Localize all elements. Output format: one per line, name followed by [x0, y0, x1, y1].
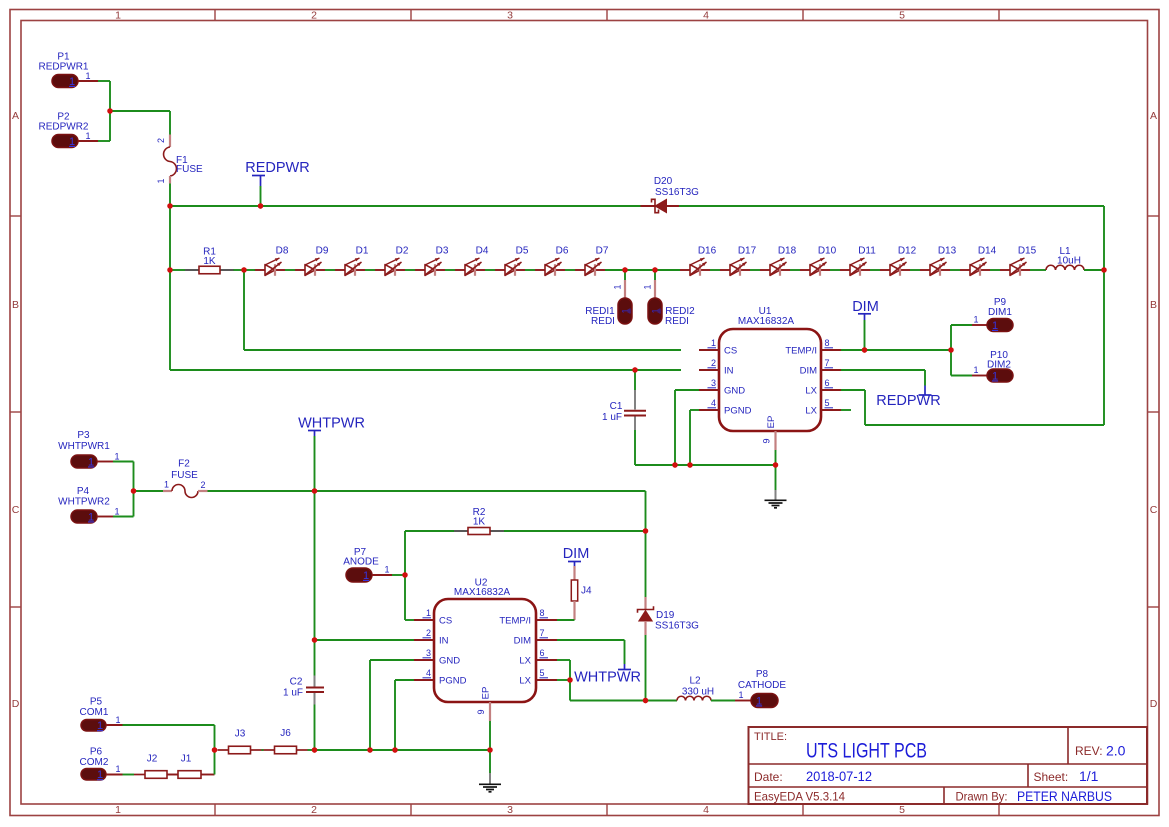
LED D2	[375, 246, 409, 276]
svg-text:1 uF: 1 uF	[602, 412, 622, 423]
svg-text:TITLE:: TITLE:	[754, 731, 787, 743]
svg-text:5: 5	[899, 9, 905, 21]
LED D5	[495, 246, 529, 276]
wire bottom bus	[315, 749, 491, 751]
U2 pin 8 TEMP/I	[499, 608, 557, 627]
wire P7 to node	[392, 574, 405, 576]
svg-text:1K: 1K	[203, 256, 216, 267]
net label REDPWR top	[245, 160, 309, 206]
svg-text:PGND: PGND	[439, 676, 467, 687]
svg-text:1: 1	[973, 315, 978, 325]
svg-text:ANODE: ANODE	[343, 557, 379, 568]
junction PGND riser U2	[392, 747, 397, 752]
svg-text:UTS LIGHT PCB: UTS LIGHT PCB	[806, 740, 927, 763]
inductor L1	[1030, 246, 1104, 270]
wire U2 LX pin5	[557, 679, 570, 681]
svg-text:P6: P6	[90, 747, 103, 758]
wire to D10	[790, 269, 800, 271]
svg-text:Date:: Date:	[754, 770, 783, 784]
U1 pin 3 GND	[699, 378, 745, 397]
LED D6	[535, 246, 569, 276]
resistor R2	[405, 530, 454, 532]
ground symbol U1	[765, 490, 787, 508]
svg-text:5: 5	[540, 668, 545, 678]
pin 1 of P4	[97, 516, 113, 518]
svg-text:1: 1	[97, 769, 103, 781]
svg-text:P8: P8	[756, 669, 769, 680]
svg-text:D8: D8	[276, 246, 289, 257]
connector P10	[973, 350, 1013, 382]
svg-text:3: 3	[507, 804, 513, 816]
svg-text:FUSE: FUSE	[176, 164, 203, 175]
svg-text:1: 1	[88, 511, 94, 523]
wire U1 CS	[243, 270, 245, 350]
junction L1-right	[1101, 267, 1106, 272]
wire to D17	[710, 269, 720, 271]
LED D10	[800, 246, 837, 276]
svg-text:REDPWR2: REDPWR2	[38, 122, 88, 133]
svg-text:P5: P5	[90, 697, 103, 708]
svg-text:4: 4	[426, 668, 431, 678]
junction LX node	[567, 677, 572, 682]
svg-text:9: 9	[762, 438, 772, 443]
svg-text:1: 1	[85, 131, 90, 141]
svg-text:1: 1	[756, 695, 762, 707]
svg-text:6: 6	[825, 378, 830, 388]
svg-text:D5: D5	[516, 246, 529, 257]
svg-text:1: 1	[115, 9, 121, 21]
pin 1 of P5	[106, 724, 123, 726]
svg-text:COM2: COM2	[80, 757, 109, 768]
pin 1 of P6	[106, 774, 123, 776]
svg-text:Drawn By:: Drawn By:	[956, 790, 1008, 804]
net label REDPWR right	[876, 386, 940, 410]
svg-text:TEMP/I: TEMP/I	[785, 346, 817, 357]
svg-text:1: 1	[114, 452, 119, 462]
svg-text:J2: J2	[147, 754, 158, 765]
wire to D8	[244, 269, 255, 271]
svg-text:LX: LX	[805, 406, 817, 417]
svg-text:DIM1: DIM1	[988, 307, 1012, 318]
wire U2 DIM pin to WHTPWR label	[557, 639, 625, 641]
junction GND riser	[672, 462, 677, 467]
U1 pin 2 IN	[699, 358, 734, 377]
wire to D16	[655, 269, 680, 271]
svg-text:DIM: DIM	[563, 546, 590, 562]
wire U2 GND riser	[370, 659, 414, 661]
svg-text:2018-07-12: 2018-07-12	[806, 768, 872, 784]
svg-text:EP: EP	[481, 687, 492, 700]
svg-text:IN: IN	[724, 366, 734, 377]
wire J6 to C2 node	[308, 749, 315, 751]
U2 pin 5 LX	[519, 668, 557, 687]
wire J1 to riser	[201, 774, 215, 776]
svg-text:REDI: REDI	[591, 316, 615, 327]
svg-text:2: 2	[311, 9, 317, 21]
pin 1 of P7	[372, 574, 392, 576]
junction R1 branch	[167, 267, 172, 272]
svg-text:J3: J3	[235, 729, 246, 740]
svg-text:2: 2	[156, 138, 166, 143]
net label DIM mid	[563, 546, 590, 566]
svg-text:D14: D14	[978, 246, 997, 257]
wire U1 EP down	[775, 450, 777, 490]
svg-text:MAX16832A: MAX16832A	[454, 587, 510, 598]
svg-text:REDPWR1: REDPWR1	[38, 62, 88, 73]
svg-text:1 uF: 1 uF	[283, 688, 303, 699]
jumper J4	[571, 566, 592, 620]
wire to D11	[830, 269, 840, 271]
LED D3	[415, 246, 449, 276]
svg-text:D: D	[12, 698, 20, 710]
svg-text:B: B	[1150, 299, 1157, 311]
svg-text:REDPWR: REDPWR	[245, 160, 309, 176]
wire J2 to J1	[167, 774, 178, 776]
junction R2-D19 node	[643, 528, 648, 533]
svg-text:D2: D2	[396, 246, 409, 257]
wire to D2	[365, 269, 375, 271]
svg-text:J6: J6	[280, 728, 291, 739]
svg-text:2: 2	[426, 628, 431, 638]
wire U2 PGND riser	[395, 679, 414, 681]
svg-text:REDI: REDI	[665, 316, 689, 327]
U2 pin 4 PGND	[414, 668, 467, 687]
net label DIM top	[852, 299, 879, 350]
wire right edge down	[1103, 270, 1105, 425]
svg-text:WHTPWR: WHTPWR	[298, 416, 365, 432]
junction D19-L2 node	[643, 698, 648, 703]
connector P6	[80, 747, 121, 782]
junction GND riser U2	[367, 747, 372, 752]
svg-text:1: 1	[363, 570, 369, 582]
LED D4	[455, 246, 489, 276]
op-amp U2 MAX16832A	[434, 578, 536, 703]
junction IN-U2 node	[312, 637, 317, 642]
U1 pin 9 EP	[762, 416, 778, 450]
svg-text:F2: F2	[178, 459, 190, 470]
junction P7 node	[402, 572, 407, 577]
wire U2 IN	[315, 639, 415, 641]
svg-text:J4: J4	[581, 586, 592, 597]
junction REDI2	[652, 267, 657, 272]
svg-text:GND: GND	[724, 386, 745, 397]
LED D14	[960, 246, 997, 276]
wire node to F1	[110, 110, 170, 112]
svg-text:1: 1	[156, 178, 166, 183]
capacitor C1	[602, 370, 646, 465]
svg-text:2.0: 2.0	[1106, 743, 1126, 759]
svg-text:330 uH: 330 uH	[682, 687, 714, 698]
svg-text:2: 2	[711, 358, 716, 368]
svg-text:C1: C1	[610, 401, 623, 412]
svg-text:P4: P4	[77, 486, 90, 497]
svg-text:GND: GND	[439, 656, 460, 667]
wire to P10	[950, 350, 952, 376]
LED D17	[720, 246, 757, 276]
svg-text:LX: LX	[519, 676, 531, 687]
wire LX to L2 bus	[570, 700, 646, 702]
svg-text:D19: D19	[656, 610, 675, 621]
LED D12	[880, 246, 917, 276]
wire to D14	[950, 269, 960, 271]
svg-text:FUSE: FUSE	[171, 470, 198, 481]
svg-text:PETER NARBUS: PETER NARBUS	[1017, 788, 1112, 804]
U1 pin 1 CS	[699, 338, 737, 357]
svg-text:1: 1	[164, 480, 169, 490]
svg-text:EasyEDA V5.3.14: EasyEDA V5.3.14	[754, 790, 845, 804]
wire to D12	[870, 269, 880, 271]
svg-text:D: D	[1150, 698, 1158, 710]
svg-text:P3: P3	[77, 430, 90, 441]
wire fuse node down to IN wire	[169, 206, 171, 370]
wire whtpwr bus corner down to R2 junction	[645, 491, 647, 531]
svg-text:A: A	[12, 110, 19, 122]
junction C2 riser	[312, 747, 317, 752]
svg-text:1: 1	[69, 136, 75, 148]
wire to D4	[445, 269, 455, 271]
svg-text:4: 4	[703, 804, 709, 816]
connector REDI2	[643, 270, 696, 327]
svg-text:1: 1	[992, 320, 998, 332]
svg-text:1: 1	[114, 507, 119, 517]
svg-text:1/1: 1/1	[1079, 768, 1099, 784]
U2 pin 9 EP	[476, 687, 492, 721]
svg-text:IN: IN	[439, 636, 449, 647]
svg-text:1: 1	[992, 370, 998, 382]
svg-text:D11: D11	[858, 246, 876, 257]
junction EP riser U2	[487, 747, 492, 752]
svg-text:C: C	[12, 504, 20, 516]
wire to P9	[950, 325, 952, 350]
wire J3 to J6	[262, 749, 264, 751]
svg-text:9: 9	[476, 709, 486, 714]
diode D19	[638, 531, 700, 701]
wire P4 to node	[113, 516, 134, 518]
svg-text:DIM2: DIM2	[987, 360, 1011, 371]
junction P9/P10 branch	[948, 347, 953, 352]
svg-text:L2: L2	[689, 676, 701, 687]
net label WHTPWR top	[298, 416, 365, 492]
wire U1 DIM pin to REDPWR label	[841, 369, 925, 371]
pin 1 of P2	[78, 140, 98, 142]
junction F1-bus	[167, 203, 172, 208]
wire R2 left down to CS U2	[404, 531, 406, 620]
svg-text:3: 3	[507, 9, 513, 21]
svg-text:D1: D1	[356, 246, 369, 257]
svg-text:1: 1	[651, 308, 661, 313]
wire P1 to node	[98, 80, 110, 82]
svg-text:SS16T3G: SS16T3G	[655, 187, 699, 198]
junction P1/P2 node	[107, 108, 112, 113]
title block	[749, 727, 1148, 804]
svg-text:LX: LX	[519, 656, 531, 667]
wire to D6	[525, 269, 535, 271]
svg-text:D16: D16	[698, 246, 717, 257]
ground symbol U2	[479, 773, 501, 792]
svg-text:D20: D20	[654, 176, 673, 187]
wire main red bus y=206	[170, 205, 641, 207]
wire U1 GND pin	[675, 389, 699, 391]
svg-text:1: 1	[738, 690, 743, 700]
svg-text:DIM: DIM	[800, 366, 818, 377]
wire to D13	[910, 269, 920, 271]
svg-text:WHTPWR: WHTPWR	[574, 670, 641, 686]
diode D20	[641, 176, 700, 213]
svg-text:PGND: PGND	[724, 406, 752, 417]
LED D7	[575, 246, 609, 276]
wire U2 EP down	[489, 721, 491, 773]
svg-text:EP: EP	[766, 416, 777, 429]
junction P3/P4 node	[131, 488, 136, 493]
wire P6 to J2	[123, 774, 135, 776]
svg-text:D10: D10	[818, 246, 837, 257]
junction R1-CS node	[241, 267, 246, 272]
svg-text:1: 1	[88, 456, 94, 468]
svg-text:C2: C2	[290, 677, 303, 688]
svg-text:DIM: DIM	[514, 636, 532, 647]
junction REDI1	[622, 267, 627, 272]
wire WHTPWR vertical	[314, 491, 316, 640]
svg-text:6: 6	[540, 648, 545, 658]
svg-text:8: 8	[825, 338, 830, 348]
wire U1 LX pin5 stub	[841, 409, 851, 411]
svg-text:D6: D6	[556, 246, 569, 257]
svg-text:CS: CS	[439, 616, 452, 627]
wire to D3	[405, 269, 415, 271]
svg-text:DIM: DIM	[852, 299, 879, 315]
svg-text:7: 7	[540, 628, 545, 638]
U1 pin 8 TEMP/I	[785, 338, 841, 357]
LED D13	[920, 246, 957, 276]
U1 pin 4 PGND	[699, 398, 752, 417]
svg-text:CS: CS	[724, 346, 737, 357]
wire to D15	[990, 269, 1000, 271]
wire F2 to WHTPWR bus	[208, 490, 646, 492]
fuse F1	[156, 135, 203, 184]
U1 pin 5 LX	[805, 398, 841, 417]
svg-text:D18: D18	[778, 246, 797, 257]
LED D18	[760, 246, 797, 276]
connector P5	[80, 697, 121, 733]
connector REDI1	[585, 270, 632, 327]
svg-text:TEMP/I: TEMP/I	[499, 616, 531, 627]
connector P1	[38, 52, 90, 88]
connector P8	[738, 669, 786, 708]
wire U1 IN	[170, 369, 681, 371]
capacitor C2	[283, 640, 324, 750]
svg-text:1K: 1K	[473, 517, 486, 528]
wire U2 LX pin6	[557, 659, 570, 661]
junction DIM stub	[862, 347, 867, 352]
svg-text:WHTPWR1: WHTPWR1	[58, 441, 110, 452]
jumper J2	[134, 754, 178, 779]
svg-text:7: 7	[825, 358, 830, 368]
wire to D7	[565, 269, 575, 271]
svg-text:1: 1	[97, 720, 103, 732]
LED D8	[255, 246, 289, 276]
junction WHTPWR stub	[312, 488, 317, 493]
svg-text:4: 4	[703, 9, 709, 21]
svg-text:CATHODE: CATHODE	[738, 680, 786, 691]
svg-text:1: 1	[85, 71, 90, 81]
svg-text:D12: D12	[898, 246, 917, 257]
junction C1-IN	[632, 367, 637, 372]
svg-text:D9: D9	[316, 246, 329, 257]
junction EP-gnd	[773, 462, 778, 467]
svg-text:D15: D15	[1018, 246, 1037, 257]
U2 pin 3 GND	[414, 648, 460, 667]
junction P5/P6 riser	[212, 747, 217, 752]
svg-text:1: 1	[115, 804, 121, 816]
connector P3	[58, 430, 119, 468]
pin 1 of P9	[972, 324, 987, 326]
svg-text:1: 1	[115, 715, 120, 725]
svg-text:1: 1	[613, 284, 623, 289]
junction PGND riser	[687, 462, 692, 467]
wire D7 to REDI junctions	[605, 269, 680, 271]
svg-text:1: 1	[711, 338, 716, 348]
wire U1 PGND pin	[690, 409, 699, 411]
svg-text:5: 5	[825, 398, 830, 408]
U2 pin 1 CS	[414, 608, 452, 627]
pin 1 of P10	[972, 375, 987, 377]
svg-text:1: 1	[384, 565, 389, 575]
svg-text:LX: LX	[805, 386, 817, 397]
pin 1 of P3	[97, 461, 113, 463]
connector P7	[343, 547, 389, 582]
svg-text:3: 3	[426, 648, 431, 658]
svg-text:D4: D4	[476, 246, 489, 257]
wire to D18	[750, 269, 760, 271]
LED D11	[840, 246, 876, 276]
junction dots (overlay)	[107, 108, 1106, 752]
wire to D1	[325, 269, 335, 271]
svg-text:COM1: COM1	[80, 707, 109, 718]
resistor R1	[170, 269, 185, 271]
svg-text:REDPWR: REDPWR	[876, 393, 940, 409]
svg-text:WHTPWR2: WHTPWR2	[58, 497, 110, 508]
jumper J3	[218, 729, 262, 754]
svg-text:A: A	[1150, 110, 1157, 122]
svg-text:C: C	[1150, 504, 1158, 516]
pin 1 of P8	[735, 700, 751, 702]
svg-text:D7: D7	[596, 246, 609, 257]
LED D1	[335, 246, 369, 276]
svg-text:Sheet:: Sheet:	[1034, 770, 1069, 784]
svg-text:5: 5	[899, 804, 905, 816]
U1 pin 6 LX	[805, 378, 841, 397]
svg-text:D17: D17	[738, 246, 757, 257]
svg-text:1: 1	[115, 764, 120, 774]
wire P2 to node	[98, 140, 110, 142]
jumper J6	[264, 728, 308, 754]
connector P9	[973, 297, 1013, 332]
svg-text:3: 3	[711, 378, 716, 388]
svg-text:8: 8	[540, 608, 545, 618]
U2 pin 7 DIM	[514, 628, 557, 647]
wire U1 TEMP/I	[841, 349, 951, 351]
wire U2 TEMP/I to J4	[557, 619, 575, 621]
wire to D5	[485, 269, 495, 271]
svg-text:1: 1	[621, 308, 631, 313]
inductor L2	[646, 676, 736, 701]
svg-text:10uH: 10uH	[1057, 256, 1081, 267]
jumper J1	[178, 754, 201, 779]
wire P5 to bus	[123, 724, 215, 726]
svg-text:MAX16832A: MAX16832A	[738, 316, 794, 327]
svg-text:4: 4	[711, 398, 716, 408]
fuse F2	[134, 459, 208, 498]
